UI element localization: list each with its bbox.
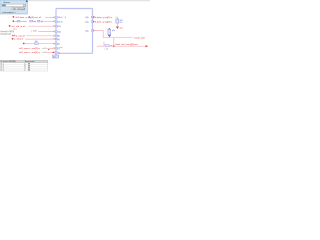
svg-text:u01_core.s_out[0].q: u01_core.s_out[0].q — [19, 51, 40, 54]
bus tap T4 on bus A — [55, 31, 57, 33]
node row6 dot — [12, 38, 14, 40]
bus tap T1 on bus A — [55, 16, 57, 18]
node busB row1 dot — [93, 16, 94, 17]
bus tap T12 on bus B — [91, 30, 93, 32]
node row1 violet glyph — [29, 16, 30, 18]
svg-text:w.01: w.01 — [42, 48, 46, 50]
bus tap T6 on bus A — [55, 38, 57, 40]
resistor R1 — [17, 20, 20, 22]
svg-text:n4: n4 — [111, 45, 113, 47]
wire row9 — [46, 52, 55, 54]
svg-text:gnd: gnd — [120, 27, 123, 29]
svg-text:10k: 10k — [35, 41, 38, 43]
wire R6 to junction — [110, 45, 114, 47]
resistor R3 — [37, 20, 40, 22]
svg-text:b.data_q.sig[0].n: b.data_q.sig[0].n — [95, 21, 113, 24]
bus tap T5 on bus A — [55, 35, 57, 37]
wire junction drop — [113, 38, 115, 47]
node row8 dot — [48, 49, 49, 50]
wire row3 — [28, 25, 55, 27]
node row1 right tick — [65, 16, 66, 19]
wire busB row3 to corner — [93, 31, 132, 38]
wire row7 right — [38, 43, 56, 45]
svg-text:bus: bus — [53, 56, 56, 58]
wire row6 — [25, 38, 55, 40]
svg-text:u01_core.s_out[1].q: u01_core.s_out[1].q — [19, 47, 40, 50]
svg-text:[14:2]: [14:2] — [57, 21, 62, 23]
ground arrow under R5 — [116, 27, 119, 30]
table panel — [0, 60, 48, 71]
resistor R2 — [30, 20, 33, 22]
resistor R4 — [35, 43, 38, 45]
svg-text:[15:0]: [15:0] — [57, 17, 62, 19]
node row7 dot — [23, 43, 25, 45]
node junction dot — [113, 45, 115, 47]
connector J1 bus terminator box — [53, 55, 59, 58]
wire busB row1 corner — [115, 17, 117, 19]
svg-text:f(x)=y(t)+f(t): f(x)=y(t)+f(t) — [0, 32, 11, 35]
wire row7 left — [25, 43, 35, 45]
bus tap T10 on bus B — [91, 16, 93, 18]
node row5 marks — [12, 35, 13, 36]
node busB row2 dot — [93, 21, 94, 22]
dialog panel — [0, 0, 28, 14]
svg-text:[10]: [10] — [57, 31, 61, 33]
bus tap T3 on bus A — [55, 25, 57, 27]
wire row8 — [46, 47, 55, 49]
bus A (left vertical bus) — [55, 9, 57, 56]
svg-text:r_s2: r_s2 — [104, 48, 108, 50]
svg-text:[12]: [12] — [57, 26, 61, 28]
wire bottom horizontal right — [114, 45, 146, 47]
node wire end arrow — [146, 45, 148, 47]
svg-text:Cancel: Cancel — [19, 9, 25, 11]
node row2 dot — [13, 20, 15, 22]
wire row2 — [44, 21, 56, 23]
svg-text:5%: 5% — [120, 22, 123, 24]
wire row5 — [26, 35, 55, 37]
wire bottom bus link — [59, 52, 93, 54]
bus tap T7 on bus A — [55, 43, 57, 45]
wire top bus link — [56, 8, 93, 10]
resistor R6 — [105, 45, 109, 47]
node busB row3 dot — [93, 30, 94, 31]
resistor R5 — [116, 19, 119, 23]
diode D1 vertical — [108, 28, 111, 37]
wire row1 — [45, 16, 56, 18]
wire bottom horizontal left — [97, 45, 104, 47]
svg-text:w.00: w.00 — [42, 52, 46, 54]
svg-text:Expression: Expression — [25, 60, 34, 63]
wire R5 stub down — [116, 23, 118, 26]
wire row4 — [38, 31, 56, 33]
bus tap T2 on bus A — [55, 21, 57, 23]
svg-text:q2a: q2a — [112, 30, 115, 32]
svg-text:b.data_q.sig[1].n: b.data_q.sig[1].n — [95, 16, 113, 19]
svg-text:p_out.ch: p_out.ch — [16, 34, 26, 37]
wire stub up at R6 left — [103, 42, 105, 47]
svg-text:s.val.r: s.val.r — [21, 21, 27, 23]
bus B (right vertical bus) — [92, 9, 94, 54]
bus tap T8 on bus A — [55, 47, 57, 49]
node row1 dot — [13, 16, 15, 18]
svg-text:D q: D q — [1, 70, 4, 72]
svg-text:c: c — [25, 70, 26, 72]
svg-text:rst.q: rst.q — [13, 28, 16, 31]
svg-text:fault_led_out.q[0].net: fault_led_out.q[0].net — [115, 43, 137, 46]
node row3 dot — [9, 25, 11, 27]
node row9 dot — [53, 52, 54, 53]
svg-text:dat: dat — [33, 20, 37, 23]
svg-text:s.fault_q1a: s.fault_q1a — [133, 37, 145, 40]
svg-text:Choose: Choose — [3, 2, 11, 4]
bus tap T11 on bus B — [91, 21, 93, 23]
svg-text:y_data.b: y_data.b — [14, 38, 24, 41]
bus tap T9 on bus A — [55, 52, 57, 54]
svg-text:st itemsplans: c: st itemsplans: c — [2, 11, 16, 14]
svg-text:v. Gnd: v. Gnd — [31, 31, 36, 33]
